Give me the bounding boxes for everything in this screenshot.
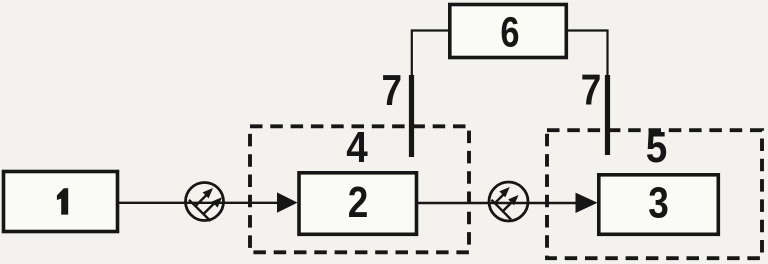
svg-text:3: 3 <box>648 177 669 227</box>
svg-text:4: 4 <box>346 122 368 172</box>
box 1 <box>4 172 118 232</box>
svg-text:7: 7 <box>382 65 403 115</box>
optical connector symbol (right) <box>489 182 528 221</box>
box 3 <box>599 175 719 235</box>
dashed box 5 <box>547 130 762 258</box>
svg-text:2: 2 <box>348 177 369 227</box>
fiber bar 7 (right) <box>605 75 610 155</box>
wire: box1 to box2 (through connector symbol) <box>119 202 280 204</box>
arrowhead into box 3 <box>576 193 598 213</box>
wire: box6 left lead <box>412 31 449 77</box>
fiber bar 7 (left) <box>409 75 414 157</box>
arrowhead into box 2 <box>277 192 298 212</box>
svg-text:5: 5 <box>646 122 668 172</box>
dashed box 4 <box>250 126 469 252</box>
wire: box6 right lead <box>567 31 608 77</box>
svg-text:7: 7 <box>581 64 602 114</box>
wire: box2 to box3 (through connector symbol) <box>418 202 578 204</box>
optical connector symbol (left) <box>186 183 224 222</box>
label 1 <box>57 188 68 214</box>
svg-text:6: 6 <box>500 9 519 56</box>
box 2 <box>299 173 417 235</box>
box 6 <box>450 5 567 58</box>
